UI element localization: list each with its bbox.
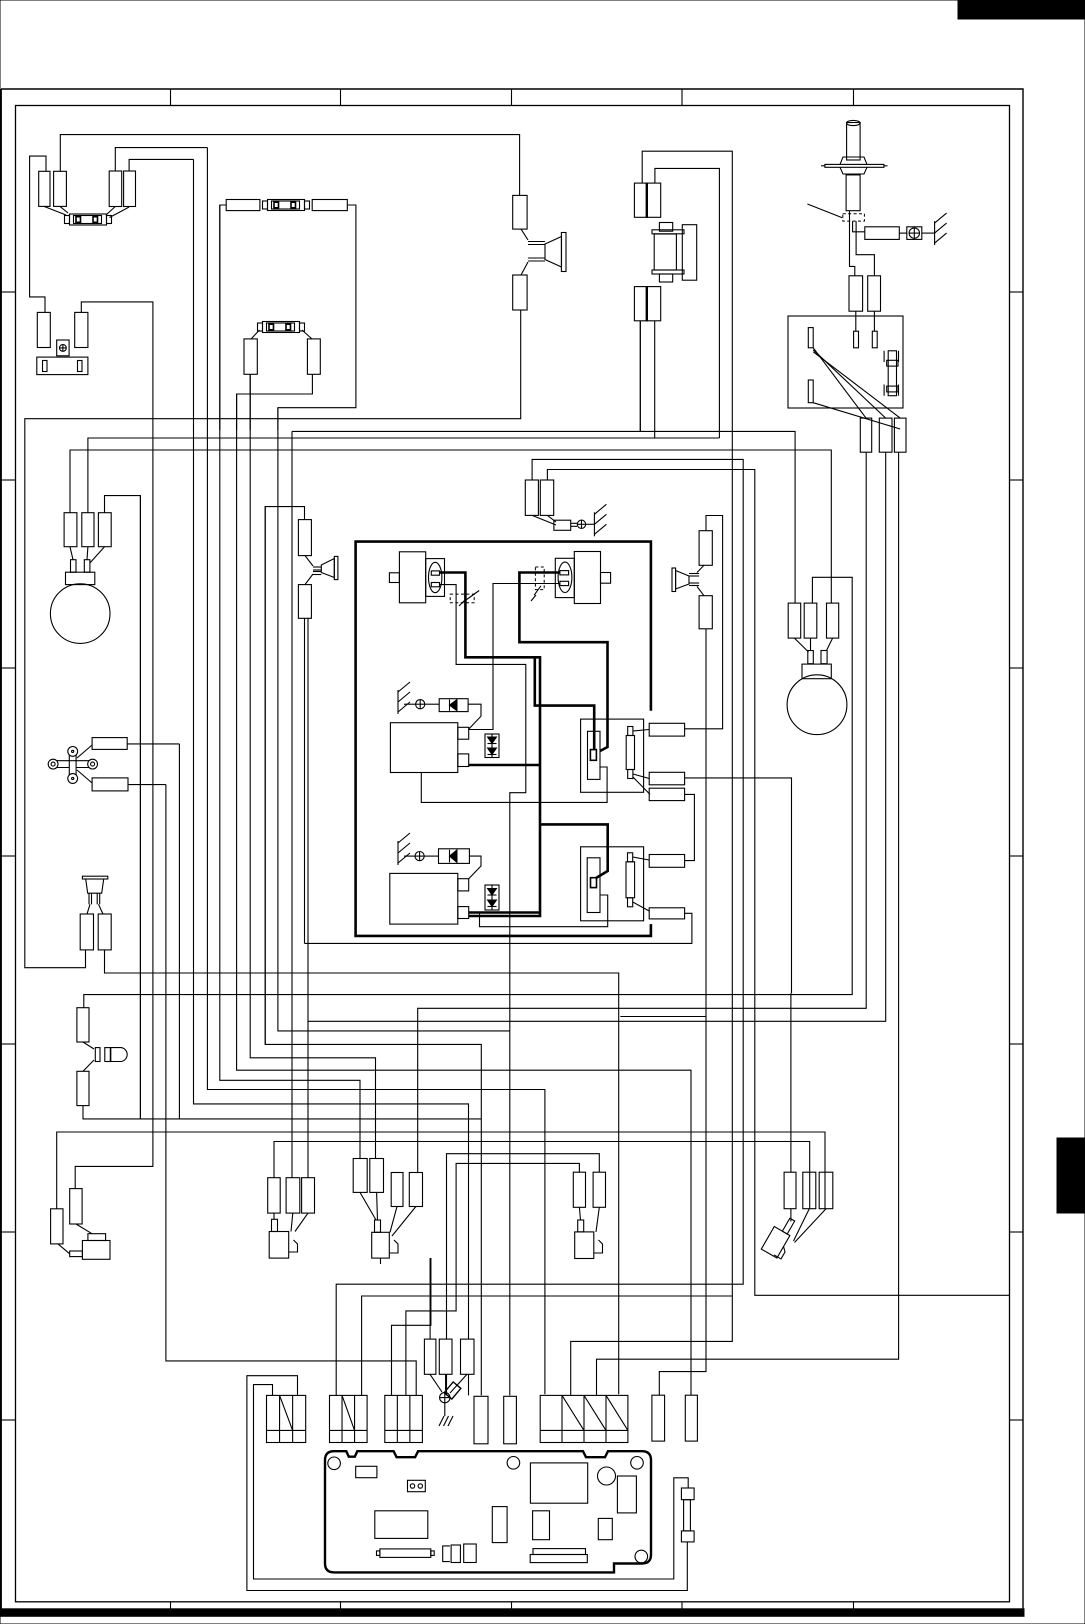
wire M plug down bbox=[380, 1258, 382, 1264]
connector MG-top-a bbox=[634, 183, 646, 217]
connector TL2-a bbox=[37, 312, 50, 347]
ECU relay big bbox=[530, 1463, 587, 1503]
ignition coil IC1 pin-a bbox=[431, 571, 439, 575]
small conn SC3 bbox=[461, 1339, 475, 1374]
connector BULB-a bbox=[77, 1008, 89, 1042]
ground G2 bbox=[398, 682, 410, 714]
connector MG-bot-b bbox=[647, 286, 661, 321]
wire IC2 thin bbox=[469, 584, 560, 730]
ground G4 bbox=[594, 504, 606, 536]
ECU board outline bbox=[325, 1451, 651, 1572]
ignition coil IC1 stub bbox=[389, 573, 399, 583]
ECU box mid bbox=[375, 1511, 428, 1539]
wire key-2 to resistor bbox=[853, 221, 865, 232]
connector CS-a bbox=[92, 738, 127, 750]
pickup P1 core bbox=[590, 750, 596, 761]
resistor R1 bbox=[865, 227, 900, 240]
connector TL1-b bbox=[54, 171, 67, 206]
wire MG-bot-a down bbox=[639, 321, 641, 432]
border tick left 7 bbox=[1, 1419, 16, 1421]
wire GA1-a up right long bbox=[70, 450, 831, 603]
pickup P2 inner bbox=[587, 858, 600, 913]
wire bus x264 bbox=[264, 507, 266, 1045]
wire bus x207 bbox=[207, 148, 545, 1395]
wire y1069 tail bbox=[639, 430, 641, 432]
wire smallrect1 feed bbox=[429, 1258, 431, 1339]
connector TL2-b bbox=[75, 312, 88, 347]
connector SP1-top bbox=[513, 195, 527, 229]
wire GS-a up right bbox=[336, 459, 743, 1395]
spark plug cap dashed IC2 bbox=[531, 567, 544, 601]
wire R diag bbox=[579, 1207, 599, 1232]
wire TL1-b to F1 bbox=[60, 206, 68, 213]
connector SP2-bot bbox=[298, 585, 311, 619]
wire CDI2 stub-b thick bbox=[469, 911, 540, 914]
connector BULB-b bbox=[77, 1071, 89, 1105]
wire TL1-a stub left bbox=[30, 156, 46, 312]
ground G1 bbox=[935, 213, 947, 245]
border tick right 1 bbox=[1010, 291, 1023, 293]
pump tab top bbox=[88, 1234, 106, 1241]
pickup P2 coil bar bbox=[626, 862, 635, 898]
wire sp2bot T bbox=[304, 618, 306, 943]
ECU block B1 bbox=[267, 1395, 306, 1442]
plug R hook bbox=[594, 1240, 603, 1253]
wire horn diag-a bbox=[87, 904, 90, 914]
regulator MG bar bottom bbox=[652, 270, 684, 274]
wire key-3 to conn-b bbox=[856, 221, 874, 276]
connector MG-top-b bbox=[647, 183, 661, 219]
gauge GA2 stub-a bbox=[808, 651, 814, 664]
connector L-3 bbox=[302, 1178, 315, 1213]
wire Mplug to block3 bbox=[392, 1258, 431, 1395]
pickup P2 tab bot bbox=[628, 898, 633, 907]
plug R stub bbox=[578, 1220, 584, 1232]
ECU connector strip bbox=[377, 1549, 435, 1558]
ECU screw hole 4 bbox=[635, 1550, 648, 1563]
ECU screw hole 2 bbox=[507, 1457, 520, 1470]
ECU right conn RA bbox=[652, 1395, 665, 1441]
ECU small part e bbox=[451, 1545, 460, 1563]
screw terminal D2 bbox=[415, 852, 424, 861]
ECU cap bbox=[617, 1476, 636, 1513]
wire P1 diag conn1 bbox=[633, 730, 649, 732]
gauge GA2 dial bbox=[787, 675, 847, 735]
wire horn diag-b bbox=[99, 904, 104, 914]
connector GS-b bbox=[540, 480, 553, 515]
ignition coil IC2 stub bbox=[601, 573, 611, 584]
wire IC2 HT thick bbox=[519, 573, 607, 752]
terminal RB-2 bbox=[854, 331, 859, 348]
plug M hook bbox=[389, 1240, 398, 1253]
border tick bottom 2 bbox=[340, 1602, 342, 1609]
speaker SP1 horn bbox=[521, 229, 566, 275]
border tick right 3 bbox=[1010, 667, 1023, 669]
ignition coil IC2 housing bbox=[555, 558, 574, 597]
wire P2 bottom left bbox=[469, 912, 608, 927]
border tick left 4 bbox=[1, 855, 16, 857]
wire F3 tab left bbox=[251, 330, 260, 339]
pickup P1 tab top bbox=[628, 727, 633, 736]
ECU conn 2pin bbox=[408, 1480, 426, 1491]
ECU block B4 bbox=[540, 1395, 628, 1442]
plug L stub bbox=[272, 1219, 278, 1231]
gauge GA1 dial bbox=[50, 584, 110, 644]
pickup P2 step bbox=[600, 895, 608, 921]
diode pair DP1 bbox=[485, 734, 499, 758]
connector SP3-bot bbox=[699, 596, 712, 629]
wire jumper y1016 bbox=[620, 1016, 706, 1018]
spark plug cap dashed IC1 bbox=[450, 591, 479, 607]
wire IC1 thick branch bbox=[535, 657, 594, 750]
CDI unit 1 bbox=[390, 723, 457, 773]
terminal RB-1 bbox=[808, 328, 813, 348]
wire CS diag-b bbox=[77, 770, 92, 783]
pump tab left bbox=[70, 1251, 83, 1257]
key switch dashed connector bbox=[843, 214, 865, 221]
wire P1C-2 right bbox=[685, 778, 792, 993]
wire MG-top-a up long down bbox=[571, 151, 733, 1395]
wire G2 to screw bbox=[404, 703, 416, 705]
ignition coil IC2 pin-b bbox=[560, 581, 569, 585]
border tick bottom 3 bbox=[511, 1602, 513, 1609]
border tick top 4 bbox=[681, 89, 683, 106]
connector MG-bot-a bbox=[634, 287, 646, 321]
connector M-2 bbox=[370, 1159, 384, 1193]
ECU right conn RB bbox=[685, 1395, 697, 1441]
key switch body bbox=[846, 175, 860, 211]
connector P1C-2 bbox=[649, 772, 684, 785]
wire GS-b up right bbox=[547, 470, 1009, 1296]
ECU bottom connector bbox=[530, 1549, 587, 1563]
connector F3-left bbox=[244, 339, 257, 374]
wire P1 diag conn3 bbox=[633, 777, 650, 794]
wire D1 to CDI1 bbox=[468, 704, 481, 729]
ECU tall conn TB bbox=[504, 1396, 517, 1444]
ECU block B3 bbox=[385, 1395, 423, 1442]
wire CS-a right bbox=[127, 743, 179, 745]
border tick left 3 bbox=[1, 667, 16, 669]
wire CS diag-a bbox=[77, 745, 92, 758]
wire L diag bbox=[274, 1213, 308, 1231]
connector SP3-top bbox=[699, 531, 712, 566]
connector P1C-3 bbox=[649, 788, 684, 800]
tilted plug stub bbox=[782, 1218, 794, 1234]
connector TP2-b bbox=[124, 171, 136, 207]
border tick right 4 bbox=[1010, 855, 1023, 857]
wire RBC-3 down long bbox=[597, 452, 899, 1395]
border tick top 2 bbox=[340, 89, 342, 106]
connector GA2-a bbox=[788, 603, 801, 638]
connector GA1-c bbox=[98, 513, 111, 547]
border tick right 6 bbox=[1010, 1231, 1023, 1233]
border tick top 5 bbox=[853, 89, 855, 106]
wire GS diag bbox=[532, 515, 556, 525]
connector CS-b bbox=[92, 778, 128, 791]
regulator MG small top bbox=[659, 223, 672, 232]
wire F3-right down bus236 bbox=[237, 374, 313, 430]
CDI unit 2 bbox=[390, 873, 458, 924]
wire D2 to CDI2 bbox=[469, 856, 481, 879]
wire bus x193 bbox=[194, 159, 469, 1395]
wire P2 diag conn2 bbox=[633, 902, 650, 911]
wire IC1 HT thick bbox=[440, 573, 541, 917]
wire F1 right diagonals bbox=[106, 207, 129, 218]
border tick top 1 bbox=[170, 89, 172, 106]
wire GA1 diag-b bbox=[86, 547, 89, 560]
wire P2 diag conn1 bbox=[633, 857, 650, 860]
wire GA1-c up right bbox=[105, 496, 141, 1119]
wire screw to diode D2 bbox=[424, 855, 438, 857]
plug R body bbox=[575, 1232, 594, 1259]
screw terminal TL2 bbox=[57, 340, 69, 356]
wire CDI1 stub-b thick bbox=[469, 764, 540, 767]
border tick left 6 bbox=[1, 1231, 16, 1233]
plug L hook bbox=[289, 1240, 298, 1252]
wire bus x236 bbox=[237, 394, 691, 1395]
wire T-1 up bbox=[790, 993, 792, 1172]
pickup P1 inner bbox=[588, 731, 601, 779]
connector KEY-b bbox=[868, 276, 881, 311]
wire IC1 thin bbox=[440, 585, 526, 1396]
wire RBC-2 down to elbow bbox=[308, 452, 886, 1021]
ignition coil IC2 oval bbox=[558, 562, 572, 592]
tilted plug body bbox=[761, 1227, 790, 1259]
wire P1C-1 right bbox=[685, 516, 723, 729]
wire B1-c1 feed bbox=[254, 1385, 689, 1579]
wire P1 bottom left bbox=[421, 773, 607, 803]
horn leg-a bbox=[89, 893, 92, 904]
wire bus x292 (speaker line) bbox=[291, 431, 293, 1177]
connector RBC-3 bbox=[894, 418, 906, 452]
gauge GA2 stub-b bbox=[821, 651, 827, 664]
small conn SC2 bbox=[439, 1339, 452, 1374]
wire G3 to screw bbox=[404, 855, 415, 857]
fuse F1 below TL1 bbox=[65, 214, 112, 225]
fuse F2 bbox=[263, 200, 310, 211]
connector GA1-a bbox=[64, 513, 77, 547]
border tick right 5 bbox=[1010, 1043, 1023, 1045]
connector RBC-1 bbox=[860, 418, 871, 452]
black title block top-right bbox=[958, 0, 1085, 19]
ground G5 small bbox=[439, 1403, 453, 1426]
ECU screw hole 1 bbox=[328, 1457, 341, 1470]
wire SP3-bot down long bbox=[659, 629, 706, 1395]
connector T-3 bbox=[819, 1172, 833, 1209]
screw terminal GS bbox=[577, 520, 585, 528]
connector R-2 bbox=[593, 1172, 605, 1207]
wire TL1-b up long to speaker SP1 bbox=[60, 135, 519, 196]
terminal RB-3 bbox=[872, 331, 877, 348]
bar TL2 left bbox=[43, 361, 48, 372]
connector T-2 bbox=[803, 1172, 816, 1209]
ignition coil IC2 body bbox=[574, 552, 600, 604]
wire P1 diag conn2 bbox=[633, 774, 649, 779]
connector TP2-a bbox=[109, 171, 122, 207]
ECU big hole bbox=[598, 1467, 616, 1485]
wire pump diag-a bbox=[58, 1244, 70, 1254]
wire P1C-3 right bbox=[685, 794, 695, 860]
ECU small part d bbox=[443, 1546, 450, 1562]
connector TL1-a bbox=[39, 171, 50, 206]
wire RB diagonals bbox=[813, 348, 900, 429]
wire branch to block2-c3 bbox=[362, 1296, 733, 1395]
gauge GA1 stub-a bbox=[71, 560, 77, 573]
regulator MG bar top bbox=[652, 230, 684, 234]
border tick bottom 5 bbox=[853, 1602, 855, 1609]
wire CS-b right bbox=[128, 784, 166, 786]
ignition coil IC1 housing bbox=[426, 559, 445, 597]
CDI1 stub-a bbox=[458, 727, 469, 739]
wire thick to pickup2 bbox=[540, 824, 608, 878]
ignition coil IC1 oval bbox=[429, 562, 442, 592]
fuse RB main bbox=[884, 351, 898, 396]
connector GA1-b bbox=[82, 513, 94, 547]
wire TP2-rect2 up bbox=[129, 159, 193, 171]
connector RBC-2 bbox=[879, 418, 892, 452]
terminal RB-4 bbox=[808, 380, 813, 403]
connector P2C-2 bbox=[649, 908, 684, 919]
pickup box P2 bbox=[581, 847, 644, 921]
connector GA2-b bbox=[804, 603, 817, 638]
wire SP2-top up left down bbox=[265, 507, 481, 1396]
black tab right edge bbox=[1057, 1138, 1085, 1213]
ECU part a bbox=[492, 1507, 507, 1543]
wire KEY-b down into relay box bbox=[873, 311, 875, 331]
fuse F3 bbox=[258, 322, 305, 333]
border tick bottom 4 bbox=[681, 1602, 683, 1609]
wire TL2-b up to bus x152 bbox=[81, 302, 153, 430]
wire P2C-2 right bbox=[305, 913, 692, 943]
connector P2C-1 bbox=[649, 855, 684, 868]
wire bus x219 bbox=[220, 205, 360, 1159]
diode pair DP2 bbox=[485, 885, 499, 910]
regulator MG small bottom bbox=[659, 274, 672, 282]
wire SP2-bot down long bbox=[307, 618, 309, 1177]
wire SC diag bbox=[430, 1374, 467, 1393]
connector HORN-b bbox=[98, 914, 111, 950]
wire M diag bbox=[360, 1192, 416, 1236]
wire L-1 line bbox=[274, 1142, 810, 1209]
connector P1C-1 bbox=[649, 723, 684, 736]
border tick left 5 bbox=[1, 1043, 16, 1045]
wire bus x250 bbox=[250, 374, 375, 1158]
connector L-1 bbox=[268, 1178, 281, 1213]
CDI2 stub-b bbox=[458, 907, 469, 919]
key switch shaft top bbox=[847, 120, 861, 160]
connector M-1 bbox=[353, 1159, 367, 1193]
plug M stub bbox=[375, 1220, 381, 1232]
wire TP2-rect1 up bbox=[115, 148, 207, 171]
wire HORN-b down right bbox=[105, 950, 619, 1394]
wire F2-right down bbox=[278, 205, 356, 430]
wire GA2 diag-a bbox=[794, 638, 808, 652]
horn body bbox=[86, 879, 104, 893]
wire SP1-bot down-left long to horn bbox=[25, 310, 521, 968]
screw terminal D1 bbox=[416, 700, 425, 709]
bulb symbol bbox=[83, 1042, 127, 1071]
wire bulb up x140 bbox=[139, 496, 141, 1119]
ignition coil IC1 pin-b bbox=[431, 583, 439, 587]
wire BULB-b down bbox=[83, 1106, 481, 1119]
wire R-1 feed bbox=[406, 1163, 580, 1395]
horn plate bbox=[82, 876, 107, 879]
sensor GS body bbox=[554, 520, 571, 530]
CDI2 stub-a bbox=[458, 879, 469, 891]
connector F3-right bbox=[307, 339, 320, 374]
ECU block B2 bbox=[330, 1395, 368, 1442]
pickup P1 coil bar bbox=[626, 736, 634, 770]
wire R-2 feed bbox=[447, 1154, 600, 1396]
gauge GA1 body bbox=[66, 572, 95, 584]
tilted plug hook bbox=[774, 1244, 787, 1258]
wire GA2 diag-b bbox=[810, 638, 812, 650]
wire F2-left down bbox=[220, 205, 226, 430]
wire T diag bbox=[791, 1209, 826, 1243]
wire bus x165 cross-switch-b bbox=[166, 785, 416, 1396]
connector SP1-bot bbox=[513, 275, 527, 310]
wire bus x179 cross-switch-a bbox=[179, 744, 481, 1119]
wire F3 tab right bbox=[302, 330, 312, 339]
connector F2-right bbox=[312, 200, 347, 211]
ignition coil IC1 body bbox=[399, 552, 425, 603]
wire screw to diode D1 bbox=[425, 703, 439, 705]
wire magneto lower T a bbox=[639, 321, 641, 432]
wire GS to screw bbox=[571, 523, 577, 526]
wire KEY-a down into relay box bbox=[855, 311, 857, 331]
pickup box P1 bbox=[581, 719, 644, 792]
bar TL2 right bbox=[78, 361, 83, 372]
wire MG-bot-b down bbox=[654, 321, 656, 438]
pickup P2 tab top bbox=[628, 853, 633, 862]
border tick right 7 bbox=[1010, 1419, 1023, 1421]
connector PUMP-a bbox=[51, 1209, 63, 1244]
pickup P2 core bbox=[591, 878, 597, 888]
pickup P1 step bbox=[600, 767, 607, 792]
wire bus x152 down to pump bbox=[75, 430, 153, 1189]
pump body bbox=[82, 1241, 110, 1260]
wire RBC-1 down to M-rect4 bbox=[418, 452, 867, 1172]
wire elbow1119 up bbox=[139, 1118, 141, 1120]
speaker SP3 horn bbox=[672, 565, 704, 595]
wire pump diag-b bbox=[76, 1224, 92, 1234]
border tick left 2 bbox=[1, 479, 16, 481]
ECU screw hole 3 bbox=[631, 1457, 644, 1470]
ground G3 bbox=[398, 833, 410, 865]
ECU small part f bbox=[464, 1544, 477, 1563]
connector GA2-c bbox=[827, 603, 839, 638]
horn leg-b bbox=[97, 893, 100, 904]
connector M-3 bbox=[391, 1173, 403, 1207]
border tick left 1 bbox=[1, 291, 16, 293]
connector T-1 bbox=[784, 1172, 796, 1209]
screw terminal ECU bbox=[440, 1382, 461, 1403]
diode D1 box bbox=[439, 699, 468, 712]
gauge GA1 stub-b bbox=[84, 560, 90, 573]
border tick right 2 bbox=[1010, 479, 1023, 481]
regulator MG body bbox=[654, 234, 676, 270]
ignition coil IC2 pin-a bbox=[560, 571, 569, 575]
wire MG-top-b up to gauge1 line bbox=[655, 168, 720, 438]
handlebar switch cross bbox=[48, 747, 97, 784]
small conn SC1 bbox=[424, 1339, 436, 1374]
speaker SP2 horn bbox=[305, 556, 338, 585]
connector F2-left bbox=[226, 200, 260, 211]
gauge GA2 body bbox=[802, 664, 831, 679]
wire key-1 to conn-a bbox=[850, 211, 855, 276]
ECU tall conn TA bbox=[474, 1396, 488, 1444]
wire GS gnd bbox=[586, 523, 595, 525]
